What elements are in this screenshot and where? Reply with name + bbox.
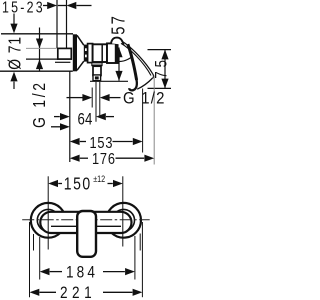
svg-text:Ø 71: Ø 71 [6, 36, 25, 70]
svg-text:57: 57 [108, 14, 129, 35]
svg-text:221: 221 [60, 283, 96, 300]
svg-text:15-23: 15-23 [2, 0, 45, 16]
svg-text:176: 176 [92, 151, 116, 169]
svg-text:G 1/2: G 1/2 [31, 80, 50, 128]
svg-text:G 1/2: G 1/2 [123, 89, 166, 107]
svg-text:64: 64 [78, 110, 93, 129]
svg-text:184: 184 [66, 263, 98, 282]
svg-text:75: 75 [152, 56, 171, 78]
svg-text:±12: ±12 [93, 174, 105, 184]
svg-text:150: 150 [64, 175, 92, 194]
